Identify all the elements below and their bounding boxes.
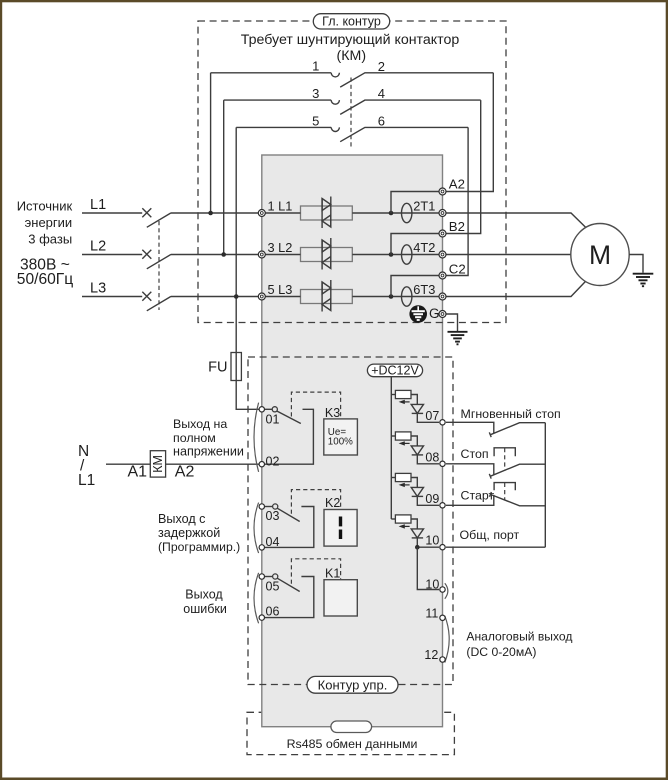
svg-text:Общ, порт: Общ, порт bbox=[460, 528, 520, 542]
phase L3 line with breaker bbox=[82, 281, 258, 311]
wire coil to 02 bbox=[166, 463, 259, 465]
relay contact 05-06 bbox=[264, 574, 313, 618]
wire T2 row bbox=[391, 254, 439, 256]
N / L1 labels bbox=[78, 443, 95, 489]
control circuit dashed box bbox=[248, 357, 453, 685]
control terminals right 07-12 bbox=[440, 420, 445, 663]
svg-text:(DC 0-20мА): (DC 0-20мА) bbox=[466, 645, 536, 659]
DC bus wire bbox=[390, 377, 392, 519]
connector arc 03-04 bbox=[254, 503, 259, 553]
svg-text:2: 2 bbox=[378, 59, 385, 74]
linkage to K3 bbox=[291, 392, 340, 420]
node junction T2->B2 bbox=[389, 252, 394, 257]
svg-text:50/60Гц: 50/60Гц bbox=[17, 271, 73, 288]
input branch 08 bbox=[391, 432, 439, 464]
svg-text:6T3: 6T3 bbox=[413, 282, 435, 297]
CT row 2 bbox=[402, 245, 412, 264]
linkage to K1 bbox=[291, 559, 340, 584]
connector arc 10b bbox=[445, 583, 448, 598]
connector arc 01-02 bbox=[254, 403, 259, 472]
connector arc 11-12 bbox=[445, 616, 449, 663]
connector arc 05-06 bbox=[254, 573, 259, 624]
svg-text:10: 10 bbox=[425, 534, 439, 548]
svg-text:Мгновенный стоп: Мгновенный стоп bbox=[461, 407, 561, 421]
main circuit dashed box bbox=[198, 21, 506, 323]
svg-text:Гл. контур: Гл. контур bbox=[322, 15, 381, 29]
node junction T1->A2 bbox=[389, 211, 394, 216]
svg-text:3: 3 bbox=[312, 86, 319, 101]
fuse FU bbox=[208, 352, 259, 409]
input branch 09 bbox=[391, 473, 439, 505]
svg-text:K3: K3 bbox=[325, 406, 340, 420]
wire 4 down to B2 bbox=[446, 100, 481, 233]
svg-text:задержкой: задержкой bbox=[158, 526, 220, 540]
motor M bbox=[571, 224, 629, 286]
relay contact 03-04 bbox=[264, 504, 313, 548]
svg-text:Выход на: Выход на bbox=[173, 417, 227, 431]
svg-text:5: 5 bbox=[312, 113, 319, 128]
svg-text:L1: L1 bbox=[90, 197, 106, 213]
svg-text:C2: C2 bbox=[449, 262, 466, 277]
label analog output bbox=[466, 629, 572, 659]
Rs485 connector stub bbox=[331, 721, 372, 733]
svg-text:Rs485 обмен данными: Rs485 обмен данными bbox=[287, 737, 418, 751]
svg-text:Контур упр.: Контур упр. bbox=[318, 677, 388, 692]
external stop switch (Мгновенный стоп) bbox=[446, 407, 561, 437]
svg-text:Требует шунтирующий контактор: Требует шунтирующий контактор bbox=[241, 32, 460, 48]
protective earth icon (black circle) bbox=[409, 305, 427, 323]
wire 6 down to C2 bbox=[446, 127, 468, 275]
motor wires bbox=[446, 213, 587, 228]
external start pushbutton (Старт) bbox=[446, 483, 545, 506]
svg-text:01: 01 bbox=[266, 412, 280, 426]
svg-text:+DC12V: +DC12V bbox=[371, 363, 419, 377]
svg-text:(КМ): (КМ) bbox=[337, 48, 367, 64]
svg-text:06: 06 bbox=[266, 604, 280, 618]
svg-text:10: 10 bbox=[425, 578, 439, 592]
svg-text:L2: L2 bbox=[90, 239, 106, 255]
svg-text:05: 05 bbox=[266, 579, 280, 593]
coil KM bbox=[150, 451, 165, 477]
control terminals left 01-06 bbox=[259, 407, 264, 621]
wire T1 row bbox=[391, 212, 439, 214]
svg-text:G: G bbox=[429, 306, 440, 321]
label source block bbox=[17, 199, 74, 289]
svg-text:08: 08 bbox=[425, 450, 439, 464]
wire riser 5 to L3 / fuse feed bbox=[235, 127, 237, 352]
svg-text:(Программир.): (Программир.) bbox=[158, 540, 240, 554]
svg-text:КМ: КМ bbox=[151, 455, 165, 473]
ground symbol at motor bbox=[633, 274, 654, 287]
label: Выход с задержкой bbox=[158, 512, 240, 554]
svg-text:6: 6 bbox=[378, 114, 385, 129]
external stop pushbutton (Стоп) bbox=[446, 447, 545, 478]
relay K3 bbox=[324, 406, 358, 455]
svg-text:энергии: энергии bbox=[25, 215, 73, 230]
svg-text:M: M bbox=[589, 240, 611, 270]
node junction T3->C2 bbox=[389, 294, 394, 299]
svg-text:02: 02 bbox=[266, 455, 280, 469]
relay contact 01-02 bbox=[264, 407, 313, 465]
svg-text:07: 07 bbox=[425, 409, 439, 423]
wire N to KM coil bbox=[106, 463, 150, 465]
svg-text:L1: L1 bbox=[78, 472, 95, 489]
switch bus wire bbox=[544, 423, 546, 548]
svg-text:4: 4 bbox=[378, 86, 385, 101]
svg-text:полном: полном bbox=[173, 431, 216, 445]
svg-text:3 L2: 3 L2 bbox=[268, 240, 293, 255]
svg-text:3 фазы: 3 фазы bbox=[28, 231, 72, 246]
contactor linkage dashed bbox=[350, 78, 352, 147]
wire riser 1 to L1 bbox=[210, 73, 212, 213]
CT row 3 bbox=[402, 287, 412, 306]
common port wire bbox=[446, 528, 545, 547]
wire 2 down to A2 bbox=[446, 73, 493, 192]
node Контур упр. bbox=[307, 676, 398, 693]
svg-text:11: 11 bbox=[425, 606, 438, 620]
+DC12V node bbox=[367, 363, 422, 377]
wire riser 3 to L2 bbox=[223, 100, 225, 254]
svg-text:напряжении: напряжении bbox=[173, 445, 244, 459]
input branch 07: resistor + photodiode bbox=[391, 390, 439, 422]
node Гл. контур bbox=[313, 14, 389, 29]
wire T3 row bbox=[391, 296, 439, 298]
svg-text:Стоп: Стоп bbox=[461, 447, 489, 461]
wire motor to earth bbox=[629, 255, 643, 273]
CT row 1 bbox=[402, 203, 412, 222]
svg-text:03: 03 bbox=[266, 509, 280, 523]
contactor KM pole 5-6 bbox=[236, 113, 468, 141]
node junction to 10b bbox=[415, 545, 420, 550]
relay K1 bbox=[324, 567, 357, 616]
svg-text:09: 09 bbox=[425, 492, 439, 506]
linkage to K2 bbox=[291, 490, 340, 514]
svg-text:K2: K2 bbox=[325, 496, 340, 510]
svg-text:K1: K1 bbox=[325, 567, 340, 581]
svg-text:Аналоговый выход: Аналоговый выход bbox=[466, 629, 572, 643]
svg-text:FU: FU bbox=[208, 360, 227, 376]
ground symbol at G bbox=[448, 332, 468, 345]
phase L1 line with breaker QF bbox=[82, 197, 258, 227]
wire G to earth bbox=[446, 314, 458, 331]
input branch 10 bbox=[391, 515, 439, 547]
svg-text:04: 04 bbox=[266, 535, 280, 549]
Rs485 dashed box bbox=[247, 712, 454, 754]
power terminals right bbox=[439, 188, 446, 318]
power terminals left bbox=[258, 210, 265, 301]
svg-text:1: 1 bbox=[312, 59, 319, 74]
svg-text:ошибки: ошибки bbox=[183, 602, 227, 616]
relay K2 with delay mark bbox=[324, 496, 357, 546]
label: Выход ошибки bbox=[183, 588, 227, 616]
device grey box bbox=[262, 155, 443, 727]
contactor KM pole 1-2 bbox=[211, 59, 494, 88]
svg-text:Выход с: Выход с bbox=[158, 512, 205, 526]
svg-text:Выход: Выход bbox=[185, 588, 223, 602]
label: Выход на полном напряжении bbox=[173, 417, 244, 459]
svg-text:12: 12 bbox=[424, 648, 438, 662]
phase L2 line with breaker bbox=[82, 239, 258, 269]
svg-text:A1: A1 bbox=[128, 463, 148, 480]
breaker linkage dashed bbox=[158, 221, 160, 310]
thyristor module row 2 bbox=[265, 238, 391, 270]
thyristor module row 3 bbox=[265, 280, 391, 312]
svg-text:5 L3: 5 L3 bbox=[268, 282, 293, 297]
svg-text:2T1: 2T1 bbox=[413, 199, 435, 214]
svg-text:Источник: Источник bbox=[17, 199, 73, 214]
svg-text:4T2: 4T2 bbox=[413, 240, 435, 255]
thyristor module row 1 bbox=[265, 197, 391, 229]
svg-text:L3: L3 bbox=[90, 281, 106, 297]
svg-text:100%: 100% bbox=[328, 436, 353, 447]
svg-text:A2: A2 bbox=[449, 177, 465, 192]
wire to terminal 10b bbox=[417, 547, 439, 589]
svg-text:B2: B2 bbox=[449, 219, 465, 234]
svg-text:A2: A2 bbox=[175, 463, 195, 480]
svg-text:1 L1: 1 L1 bbox=[268, 199, 293, 214]
contactor KM pole 3-4 bbox=[224, 86, 481, 114]
